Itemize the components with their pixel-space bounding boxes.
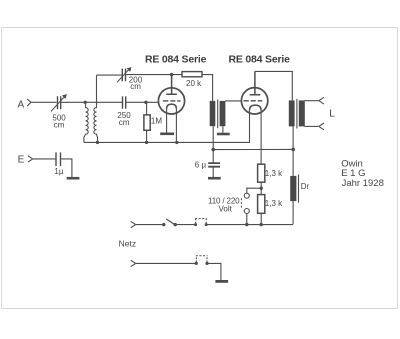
capacitor 200cm (variable) [117,67,132,82]
wire C500 to C250 [61,101,122,103]
svg-text:Jahr 1928: Jahr 1928 [342,178,384,189]
wire V2 filament left leg to rail [249,110,251,142]
wire C1u to ground [61,159,72,177]
wire selector to mains rail [246,214,248,225]
wire feedback line left [97,74,122,76]
wire Netz lower to fuse [136,262,197,264]
tube V1 plate [166,75,177,95]
node rail selector junction [245,223,248,226]
capacitor 6u [208,163,220,177]
node rail 1M junction [145,141,148,144]
ground at C6 [208,177,221,180]
tube V2 plate [250,71,261,94]
node fuse F2 left [195,262,198,265]
svg-text:1,3 k: 1,3 k [265,199,283,208]
svg-text:Dr: Dr [301,182,310,191]
svg-text:RE 084 Serie: RE 084 Serie [229,54,291,66]
wire V1 filament left leg [166,109,168,133]
wire 20k to T1 primary top [202,75,213,101]
transformer T1 primary [210,101,216,126]
node rail 1,3k junction [260,223,263,226]
wire V2 filament right leg [260,110,262,164]
wire heater rail [84,141,250,143]
svg-text:1M: 1M [151,116,162,125]
tube V1 filament [167,104,177,109]
node rail coil junction [96,141,99,144]
tube V2 filament [250,105,262,110]
terminal L bottom [319,123,324,130]
node B- junction [211,148,215,152]
ground at V1 cathode [160,133,174,136]
label 500 cm [52,113,66,129]
tube V1 RE084 envelope [158,88,184,114]
capacitor 500cm (variable) [51,94,67,111]
transformer T2 secondary [299,100,305,126]
wire V1 filament right leg [175,109,177,143]
node tap junction [260,187,263,190]
svg-text:RE 084 Serie: RE 084 Serie [145,54,207,66]
terminal Netz lower [131,260,136,266]
wire C200 to plate node [126,74,182,76]
terminal L top [319,97,324,104]
transformer T2 primary [289,100,295,126]
ground at E [67,177,80,180]
terminal A [27,99,31,106]
capacitor 250cm [123,96,126,108]
svg-text:Volt: Volt [219,204,233,213]
node fuse F2 right [205,262,208,265]
svg-text:cm: cm [130,82,141,91]
tube V1 grid (dashes) [163,100,181,102]
wire fuse F2 to ground [207,263,221,280]
wire B- rail [213,148,293,150]
svg-text:20 k: 20 k [186,79,202,88]
svg-text:1µ: 1µ [54,167,63,176]
resistor 1,3k upper [258,164,265,182]
choke Dr core [298,174,300,202]
node fuse F1 left [194,223,197,226]
selector contact upper [244,193,249,198]
label 200 cm [129,75,143,91]
ground at mains [215,280,228,283]
wire between 1,3k resistors [260,182,262,194]
node grid-leak junction [144,101,147,104]
coil L1 secondary winding [94,75,98,142]
resistor 1M grid leak [144,102,150,142]
wire tap to selector [247,188,261,193]
svg-text:Netz: Netz [119,239,136,249]
svg-text:A: A [18,99,25,110]
wire V2 plate to T2 [255,71,292,100]
svg-text:1,3 k: 1,3 k [265,169,283,178]
label 110/220 Volt [208,196,240,213]
coil L1 primary winding [84,102,88,142]
choke Dr [290,176,296,201]
svg-text:L: L [329,109,335,120]
node switch pivot [174,223,177,226]
wire Netz upper to switch [136,224,164,226]
wire T1 secondary bottom [222,126,224,133]
wire A to C500 [31,101,57,103]
node plate V1 junction [170,73,173,76]
node coil top junction [84,101,87,104]
svg-text:6 µ: 6 µ [195,161,207,170]
wire E to C1u [33,158,56,160]
wire T1 primary bottom to C6 [212,126,214,163]
transformer T2 core [296,99,298,129]
node fuse F1 right [205,223,208,226]
label 250 cm [117,111,131,127]
wire T1 secondary to grid V2 [225,100,242,102]
tube V2 grid (dashes) [244,100,263,102]
transformer T1 secondary [220,101,226,126]
resistor 1,3k lower [258,195,265,214]
transformer T1 core [217,99,219,128]
svg-text:cm: cm [54,120,65,129]
terminal E [28,156,33,162]
node rail filament junction [175,141,178,144]
switch blade [166,219,175,225]
wire C250 to grid V1 [126,101,158,103]
wire T2 primary bottom / HT line [292,126,294,223]
svg-text:E: E [18,155,25,166]
selector link (dashed) [240,198,242,208]
wire mains rail [206,224,293,226]
node HT junction [291,148,295,152]
selector contact lower [244,209,249,214]
resistor 20k [182,72,202,77]
wire T2 secondary bottom to terminal [304,125,319,127]
tube V2 RE084 envelope [241,88,267,114]
wire switch to fuse [175,224,196,226]
capacitor 1u [56,152,61,166]
ground at T1 secondary [217,133,230,136]
node switch contact [162,223,165,226]
fuse F2 (dashed box) [196,256,208,263]
fuse F1 (dashed box) [195,219,207,224]
terminal Netz upper [131,221,136,227]
wire T2 secondary top to terminal [304,100,319,102]
svg-text:cm: cm [119,118,130,127]
wire 1,3k lower to mains rail [260,213,262,224]
